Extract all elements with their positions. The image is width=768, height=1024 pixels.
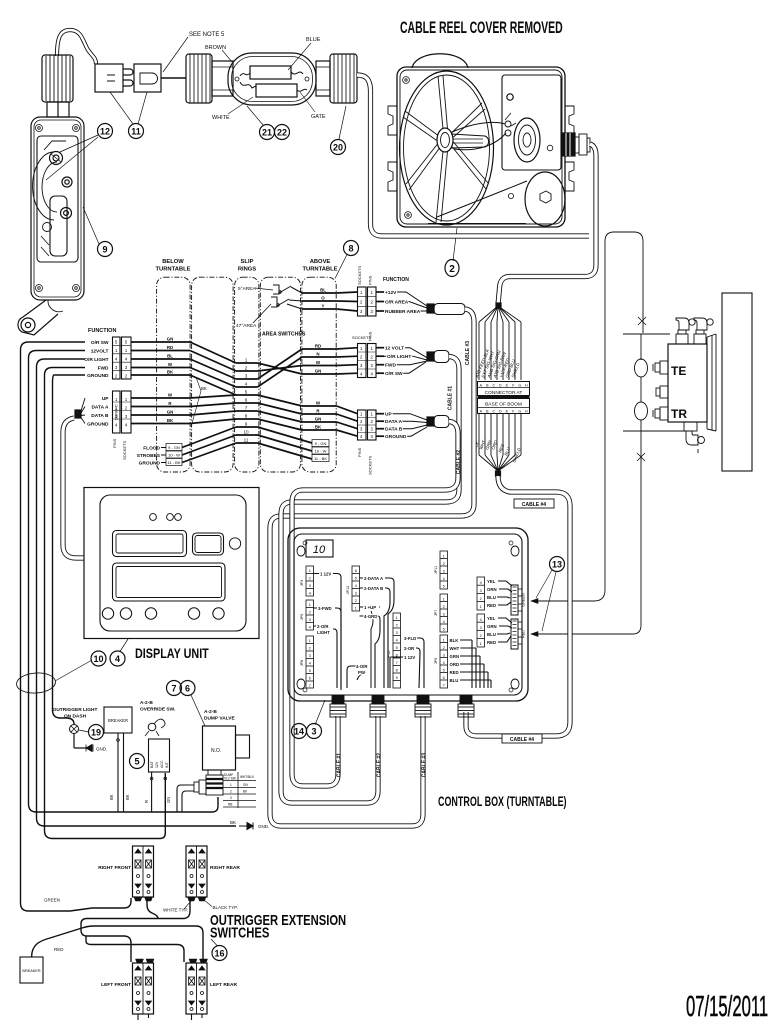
cable gland right [562,133,590,156]
arch line to TE/TR [531,232,643,601]
svg-text:4: 4 [115,654,120,664]
cable from hub to guide [452,122,506,149]
svg-text:1: 1 [360,290,363,295]
cable #4 from fan down [466,476,570,736]
cable3 loop: connector R1 to gland3 [270,309,474,826]
wire3 O/R LIGHT -> H2 y826 [37,359,237,826]
svg-text:TURNTABLE: TURNTABLE [303,267,338,273]
lamp wire down to gnd [74,734,86,749]
svg-text:3: 3 [309,584,311,588]
svg-text:CABLE REEL COVER REMOVED: CABLE REEL COVER REMOVED [400,17,563,36]
svg-text:5: 5 [355,577,357,581]
svg-text:GN: GN [315,417,322,422]
svg-text:20: 20 [333,143,343,153]
svg-text:10: 10 [313,544,326,556]
svg-text:INT: INT [165,761,169,768]
callout 9 [98,242,113,257]
svg-text:N.O.: N.O. [211,748,221,754]
outrigger bundle lines [32,898,203,962]
left connector L2 [113,391,121,433]
svg-text:CABLE #2: CABLE #2 [456,450,462,474]
svg-text:10: 10 [93,654,103,664]
svg-text:DATA B: DATA B [385,427,403,433]
callout 16 [212,946,227,961]
svg-text:4: 4 [309,592,311,596]
callouts 21 22 [247,106,263,125]
lamp symbol [70,725,79,734]
svg-text:9 - GN: 9 - GN [315,441,327,446]
svg-text:5°AREA: 5°AREA [238,286,256,292]
reel box [412,54,468,68]
svg-text:2: 2 [360,300,363,305]
svg-text:BL: BL [320,288,326,293]
L2 wires to box1 [131,398,190,424]
callout 8 [344,241,359,256]
svg-text:W: W [168,393,173,398]
svg-text:PINS: PINS [357,447,362,457]
svg-text:8: 8 [245,414,248,419]
svg-text:2-DATA B: 2-DATA B [364,586,383,591]
svg-text:GREEN: GREEN [44,898,60,903]
svg-text:BK: BK [243,790,248,794]
svg-text:1: 1 [480,642,482,646]
svg-text:D: D [499,409,502,413]
svg-text:UP: UP [385,412,392,418]
coil below [208,770,221,775]
svg-text:1: 1 [355,607,357,611]
wheel [400,71,494,225]
svg-text:5: 5 [309,669,311,673]
svg-text:LEFT FRONT: LEFT FRONT [101,982,131,988]
BREAKER box [104,707,132,733]
svg-text:4: 4 [309,626,311,630]
svg-text:1: 1 [371,412,374,417]
svg-text:3: 3 [125,414,128,419]
OUTRIGGER LIGHT ON DASH [53,707,98,720]
svg-text:B: B [486,409,489,413]
svg-text:CABLE #3: CABLE #3 [465,341,471,365]
FLOOD STROBES GROUND [137,446,161,467]
svg-text:1: 1 [443,598,445,602]
svg-text:4: 4 [371,434,374,439]
svg-text:GN: GN [315,369,322,374]
display unit outer [84,488,259,639]
outer box [288,528,528,701]
svg-text:5: 5 [134,757,139,767]
L1 wires to box1 [131,342,190,375]
connector pair 11 [95,64,123,92]
svg-text:1 12V: 1 12V [320,572,331,577]
strip pin numbers [300,555,482,689]
svg-text:4: 4 [443,620,445,624]
svg-text:BK: BK [125,794,130,800]
slanted labels top [474,347,521,379]
svg-text:FLOOD: FLOOD [143,446,160,452]
svg-text:1: 1 [115,348,118,353]
diagonals group3 left [182,427,236,463]
svg-text:6: 6 [396,654,398,658]
svg-text:F: F [512,383,515,387]
svg-text:GN: GN [166,797,171,803]
callout 2 [453,228,457,261]
wire5 GROUND -> lamp [53,375,86,724]
svg-text:R: R [316,409,320,414]
svg-text:12: 12 [100,127,110,137]
wire4 FWD -> H3 y838.5 -> override GN terminal [45,368,166,839]
svg-text:47°AREA: 47°AREA [236,323,257,329]
svg-text:DATA B: DATA B [91,413,109,419]
svg-text:5: 5 [125,340,128,345]
left ports [653,361,668,420]
svg-text:O/R AREA: O/R AREA [385,300,409,306]
svg-text:4: 4 [125,357,128,362]
svg-text:RED: RED [522,630,526,638]
svg-text:7: 7 [171,684,176,694]
svg-text:BLK: BLK [450,638,460,643]
svg-text:BELOW: BELOW [162,259,184,265]
svg-text:BREAKER: BREAKER [22,969,40,973]
svg-text:1: 1 [396,616,398,620]
lower arm [18,300,58,335]
svg-text:22: 22 [277,128,287,138]
L2 fan to cable stub [81,398,85,424]
svg-text:A-2-B: A-2-B [140,700,153,706]
svg-text:H: H [525,409,528,413]
svg-text:D: D [499,383,502,387]
svg-text:2: 2 [480,597,482,601]
svg-text:4: 4 [480,581,482,585]
PINS/SOCKETS labels [112,438,127,460]
svg-text:2-O/R: 2-O/R [317,624,329,629]
svg-text:9: 9 [102,245,107,255]
svg-text:3: 3 [360,363,363,368]
svg-text:R: R [144,800,149,803]
svg-text:2: 2 [115,373,118,378]
svg-text:10 - W: 10 - W [315,448,327,453]
svg-text:E: E [506,383,509,387]
svg-text:O/R SW: O/R SW [91,340,109,346]
svg-text:YEL: YEL [487,616,496,621]
svg-text:7: 7 [309,684,311,688]
svg-text:3: 3 [115,365,118,370]
svg-text:4: 4 [480,618,482,622]
svg-text:4-GRD: 4-GRD [364,614,377,619]
svg-text:2: 2 [355,599,357,603]
svg-text:GREEN: GREEN [522,593,526,607]
wire1 O/R SW -> GREEN -> bundle line1 [21,342,132,911]
svg-text:12V: 12V [155,761,159,768]
right knurl [316,61,330,96]
svg-text:GROUND: GROUND [87,422,109,428]
callouts 10 4 [16,672,56,695]
svg-text:1: 1 [125,348,128,353]
svg-text:RED: RED [487,640,496,645]
svg-text:1: 1 [480,605,482,609]
svg-text:BK: BK [230,820,236,825]
svg-text:11 - BK: 11 - BK [167,460,180,465]
svg-text:BAT: BAT [150,760,154,768]
connector R3 [358,410,367,440]
svg-text:5: 5 [443,585,445,589]
RF-right S-tap [147,898,158,919]
svg-text:12 VOLT: 12 VOLT [385,346,404,352]
title [135,646,209,661]
knurled cap [42,55,73,102]
svg-text:2: 2 [449,264,455,275]
svg-text:A: A [480,383,483,387]
motor circles [514,118,540,162]
svg-text:CABLE #3: CABLE #3 [422,753,428,777]
svg-text:TR: TR [671,407,687,421]
svg-text:2: 2 [309,577,311,581]
svg-text:2: 2 [245,366,248,371]
slip ring rows [236,363,258,443]
svg-text:1 12V: 1 12V [404,655,415,660]
svg-text:JP10: JP10 [387,651,391,660]
cable #4 labels [502,499,554,743]
svg-text:4: 4 [360,372,363,377]
svg-text:2: 2 [443,562,445,566]
strips [306,551,485,688]
svg-text:ORD: ORD [450,662,460,667]
svg-text:Y: Y [322,304,325,309]
svg-text:CONN-'C': CONN-'C' [115,403,119,420]
svg-text:W: W [316,401,321,406]
A-2-B DUMP VALVE [204,709,235,722]
svg-text:RINGS: RINGS [238,267,256,273]
small button [193,533,224,555]
svg-text:07/15/2011: 07/15/2011 [686,990,768,1022]
reel cable from gland to boom fan [498,144,596,305]
svg-text:12VOLT: 12VOLT [91,349,109,355]
svg-text:ORN: ORN [487,587,497,592]
line3 y926: RED from breaker to LR-right [32,926,203,962]
svg-text:CONTROL BOX (TURNTABLE): CONTROL BOX (TURNTABLE) [438,794,567,809]
diagonals group1 left [190,342,236,395]
svg-text:11 - BK: 11 - BK [314,456,327,461]
terminal table [223,772,256,808]
svg-text:3: 3 [355,592,357,596]
svg-text:3: 3 [443,613,445,617]
svg-text:1 +UP: 1 +UP [364,605,376,610]
svg-text:1: 1 [230,783,232,787]
svg-text:2: 2 [230,790,232,794]
lower left breaker [20,957,43,983]
svg-text:1: 1 [360,412,363,417]
svg-text:10: 10 [243,430,249,435]
svg-text:3: 3 [396,631,398,635]
svg-text:ACC: ACC [160,760,164,768]
svg-text:BK: BK [167,370,174,375]
svg-text:PW: PW [358,670,366,675]
left connector L1 [113,337,121,379]
svg-text:GN: GN [243,783,248,787]
svg-text:4: 4 [125,423,128,428]
svg-text:BK: BK [201,386,207,391]
GREEN/RED edge connectors [511,585,526,615]
svg-text:DISPLAY UNIT: DISPLAY UNIT [135,646,209,661]
svg-text:TURNTABLE: TURNTABLE [156,267,191,273]
svg-text:SLIP: SLIP [241,259,254,265]
svg-text:BLU: BLU [450,678,459,683]
svg-text:JP11: JP11 [434,566,438,574]
switch wires down [151,772,153,812]
svg-text:GATE: GATE [311,114,326,120]
svg-text:2: 2 [371,355,374,360]
back plate [707,334,716,431]
wire labels with halo [317,572,497,684]
svg-text:5: 5 [443,669,445,673]
cable from L2 connector down to display [63,418,84,558]
svg-text:3: 3 [245,374,248,379]
diagonals group1 right (X pattern) [258,349,303,387]
svg-text:3: 3 [309,618,311,622]
svg-text:3: 3 [360,309,363,314]
svg-text:1: 1 [371,290,374,295]
svg-text:1: 1 [443,639,445,643]
dashed turntable boxes [157,277,337,472]
svg-text:RUBBER AREA: RUBBER AREA [385,309,421,315]
top fittings [676,318,713,344]
svg-text:STROBES: STROBES [137,453,161,459]
interior wires [314,574,513,691]
fuse cable down along reel left and bottom [357,75,589,236]
diagonals group2 left [190,395,236,424]
svg-text:4-O/R: 4-O/R [356,664,368,669]
svg-text:1: 1 [125,397,128,402]
switch blocks [133,846,154,897]
svg-text:BLU: BLU [487,632,496,637]
svg-text:8: 8 [348,244,353,254]
svg-text:A-2-B: A-2-B [204,709,217,715]
svg-text:3-FLD: 3-FLD [404,636,416,641]
svg-text:F: F [512,409,515,413]
svg-text:3: 3 [230,796,232,800]
svg-text:BL: BL [167,354,173,359]
fuses [250,66,291,79]
right tabs [565,106,574,135]
svg-text:14: 14 [294,727,304,737]
corner holes [297,546,305,556]
svg-text:2: 2 [125,373,128,378]
svg-text:DATA A: DATA A [385,419,403,425]
svg-text:4: 4 [115,357,118,362]
svg-text:PINS: PINS [112,438,117,448]
connector boxes [478,382,530,396]
svg-text:LEFT REAR: LEFT REAR [210,982,237,988]
svg-text:BK: BK [315,425,322,430]
svg-text:SWITCHES: SWITCHES [210,924,269,941]
svg-text:RED: RED [487,603,496,608]
svg-text:H: H [525,383,528,387]
svg-text:1: 1 [309,569,311,573]
svg-text:3: 3 [480,626,482,630]
cap neck [47,102,69,117]
svg-text:GND.: GND. [258,824,269,829]
lower centerline to RED arrow [531,434,641,634]
arrowheads at control box [531,599,538,604]
svg-text:SOCKETS: SOCKETS [368,456,373,475]
svg-text:JP12: JP12 [346,586,350,595]
svg-text:3: 3 [125,365,128,370]
svg-text:JP5: JP5 [300,614,304,621]
svg-text:3: 3 [371,309,374,314]
svg-text:6: 6 [355,569,357,573]
svg-text:+12V: +12V [385,290,397,296]
svg-text:O/R LIGHT: O/R LIGHT [387,354,411,360]
svg-text:CONNECTOR AT: CONNECTOR AT [485,390,523,396]
svg-text:1: 1 [309,603,311,607]
svg-text:W: W [316,360,321,365]
svg-text:GROUND: GROUND [139,461,161,467]
wall [722,293,752,471]
svg-text:GROUND: GROUND [87,373,109,379]
svg-text:5: 5 [443,628,445,632]
svg-text:O/R LIGHT: O/R LIGHT [84,357,108,363]
svg-text:C: C [492,383,495,387]
connector R2 [358,344,367,378]
svg-text:2: 2 [360,355,363,360]
svg-text:GRN: GRN [487,624,497,629]
svg-text:AREA SWITCHES: AREA SWITCHES [262,332,306,338]
svg-text:5: 5 [245,390,248,395]
breaker wires down to H1 [118,733,124,812]
svg-text:RD: RD [167,345,173,350]
svg-text:RIGHT REAR: RIGHT REAR [210,865,240,871]
svg-text:GN: GN [167,337,174,342]
svg-text:7: 7 [245,406,248,411]
svg-text:11: 11 [244,438,249,443]
svg-text:FWD: FWD [385,363,396,369]
svg-text:RD: RD [315,344,321,349]
svg-text:YEL: YEL [487,579,496,584]
5 wires from L1 connector going left and down [21,342,237,911]
svg-text:2: 2 [371,419,374,424]
svg-text:2: 2 [480,634,482,638]
svg-text:PINS: PINS [368,331,373,341]
svg-text:6: 6 [245,398,248,403]
svg-text:E: E [506,409,509,413]
guide rollers [505,121,511,127]
cable labels rotated [337,753,428,777]
svg-text:WHITE: WHITE [212,115,230,121]
svg-text:BREAKER: BREAKER [108,718,128,723]
svg-text:6: 6 [309,677,311,681]
belt pulley [525,172,565,226]
svg-text:WHT: WHT [450,646,460,651]
rotated cable labels [448,341,472,474]
jog L2->L4 [81,919,87,937]
cable1 loop: connector R2 to gland2 [281,357,459,804]
svg-text:2: 2 [360,419,363,424]
svg-text:JP9: JP9 [434,658,438,665]
svg-text:9: 9 [396,676,398,680]
svg-text:GN: GN [167,410,174,415]
svg-text:CABLE #4: CABLE #4 [510,737,534,743]
right group2 wires [302,406,337,430]
wire from valve cap to connector 11 [57,30,96,64]
valve body 9 [31,117,84,300]
svg-text:BASE OF BOOM: BASE OF BOOM [485,402,522,408]
svg-text:B: B [486,383,489,387]
inner mechanism [37,136,78,262]
svg-text:5: 5 [115,340,118,345]
svg-text:16: 16 [214,949,224,959]
svg-text:G: G [518,383,521,387]
bottom wires [479,414,521,472]
svg-text:7: 7 [396,661,398,665]
svg-text:1: 1 [309,639,311,643]
